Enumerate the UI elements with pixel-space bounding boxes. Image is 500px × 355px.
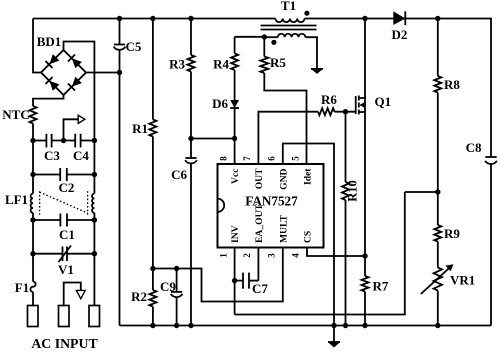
BD1 diode top-left [45, 54, 59, 68]
fuse F1 [32, 254, 34, 282]
chassis arrow (X-cap midpoint) [64, 119, 79, 140]
node row left [30, 138, 35, 143]
svg-text:R4: R4 [213, 57, 229, 72]
svg-text:T1: T1 [281, 0, 296, 13]
svg-text:C9: C9 [160, 279, 176, 294]
node row right [92, 138, 97, 143]
wire V1 row [32, 220, 34, 254]
capacitor C9 [176, 269, 178, 292]
wire Vcc junction [191, 138, 235, 140]
node C5 bottom junction [117, 70, 122, 75]
capacitor C1 [59, 214, 61, 227]
resistor R6 [318, 108, 335, 115]
svg-text:R9: R9 [444, 226, 460, 241]
svg-text:GND: GND [278, 168, 289, 189]
resistor R9 [437, 192, 439, 225]
svg-text:NTC: NTC [2, 107, 29, 122]
node feedback tap [435, 189, 440, 194]
wire X-cap row [33, 140, 46, 142]
svg-text:F1: F1 [15, 280, 29, 295]
wire pin4 CS to R7 node [307, 248, 365, 257]
thermistor NTC [30, 106, 37, 123]
node source/R7/CS [362, 253, 367, 258]
svg-text:R5: R5 [270, 55, 286, 70]
node R7 bottom [362, 323, 367, 328]
wire tap to INV run [405, 191, 438, 193]
node R10 bottom [343, 323, 348, 328]
node VR1 bottom [435, 323, 440, 328]
node aux winding / R4 / R5 [262, 34, 267, 39]
wire bottom rail [120, 325, 492, 327]
svg-text:VR1: VR1 [450, 273, 475, 288]
wire right AC column to terminal [93, 254, 95, 306]
svg-text:3: 3 [267, 253, 277, 258]
varistor V1 [62, 247, 64, 262]
BD1 diode top-right [68, 54, 82, 68]
svg-text:C1: C1 [59, 227, 75, 242]
svg-text:Q1: Q1 [375, 94, 392, 109]
resistor R3 [190, 19, 192, 56]
svg-text:C3: C3 [44, 148, 60, 163]
transformer T1 primary [264, 18, 275, 20]
T1 polarity dot primary [304, 11, 309, 16]
svg-text:MULT: MULT [278, 214, 289, 243]
capacitor C4 [74, 134, 76, 148]
node C6 bottom [188, 323, 193, 328]
node C9 top [174, 266, 179, 271]
wire R4 top jog to aux node [235, 36, 265, 38]
node top rail / Q1 drain [362, 16, 367, 21]
resistor R8 [437, 19, 439, 77]
line filter LF1 right winding [93, 175, 95, 194]
svg-text:OUT: OUT [254, 168, 265, 189]
capacitor C3 [45, 134, 47, 148]
node gate / R10 [343, 109, 348, 114]
svg-text:2: 2 [242, 253, 252, 258]
capacitor C5 [119, 19, 121, 45]
node top rail / R3 [188, 16, 193, 21]
Q1 drain lead [359, 19, 365, 99]
wire pin7 OUT to R6 [258, 112, 318, 164]
svg-text:5: 5 [291, 156, 301, 161]
svg-text:C5: C5 [126, 39, 142, 54]
svg-text:C7: C7 [252, 281, 268, 296]
wire pin6 GND to bottom rail [283, 144, 334, 326]
node V1 left [30, 251, 35, 256]
diode D2 [393, 11, 405, 25]
svg-text:C4: C4 [73, 148, 89, 163]
svg-text:R2: R2 [131, 289, 147, 304]
wire C5 column down to bottom rail [119, 73, 121, 326]
node C1 left [30, 217, 35, 222]
svg-text:AC INPUT: AC INPUT [31, 336, 97, 350]
wire INV feedback run [235, 192, 405, 315]
wire C1 row [33, 219, 60, 221]
resistor R1 [152, 19, 154, 120]
node C2 left [30, 172, 35, 177]
ground (control) [333, 326, 335, 342]
node row mid [61, 138, 66, 143]
node V1 right [92, 251, 97, 256]
line filter LF1 left winding [32, 175, 34, 194]
transistor Q1 gate bar [355, 96, 357, 114]
svg-text:R7: R7 [373, 279, 389, 294]
svg-text:EA_OUT: EA_OUT [254, 203, 265, 243]
variable resistor VR1 [434, 268, 442, 291]
node C2 right [92, 172, 97, 177]
wire bridge bottom to NTC [33, 95, 64, 106]
svg-text:R8: R8 [444, 77, 460, 92]
svg-text:Idet: Idet [303, 168, 314, 185]
svg-text:D2: D2 [392, 27, 408, 42]
BD1 diode bottom-left [45, 77, 59, 91]
node C1 right [92, 217, 97, 222]
AC input terminal left [28, 306, 39, 327]
resistor R10 [345, 112, 347, 182]
wire top rail [33, 18, 264, 20]
svg-text:Vcc: Vcc [230, 168, 241, 184]
svg-text:R6: R6 [321, 92, 337, 107]
node R1/R2/C9 [150, 266, 155, 271]
ground (aux winding) [311, 68, 323, 70]
node R2 bottom [150, 323, 155, 328]
resistor R4 [234, 37, 236, 54]
transformer T1 secondary [278, 34, 306, 37]
svg-text:6: 6 [267, 156, 277, 161]
svg-text:C6: C6 [171, 167, 187, 182]
BD1 diode bottom-right [68, 76, 82, 90]
diode D6 [230, 100, 239, 108]
node top rail / R1 [150, 16, 155, 21]
wire bridge AC top to input column [64, 42, 95, 141]
svg-text:R1: R1 [132, 121, 148, 136]
T1 core lines [261, 25, 317, 27]
capacitor C7 [235, 280, 243, 282]
capacitor C8 [485, 156, 496, 158]
wire C2 row [33, 141, 60, 175]
svg-text:V1: V1 [58, 262, 74, 277]
node top rail / R8 [435, 16, 440, 21]
svg-text:R3: R3 [169, 57, 185, 72]
svg-text:INV: INV [230, 225, 241, 243]
node GND column bottom [331, 323, 336, 328]
wire Vcc pin8 [234, 139, 236, 165]
op-amp U1 FAN7527 body [218, 164, 324, 248]
wire R2top to C9 and MULT [153, 248, 283, 302]
svg-text:8: 8 [218, 156, 228, 161]
Q1 body arrow [359, 102, 364, 108]
svg-text:C8: C8 [466, 140, 482, 155]
svg-text:D6: D6 [212, 96, 228, 111]
svg-text:4: 4 [291, 253, 301, 258]
svg-text:1: 1 [218, 253, 228, 258]
wire pin1 INV down [234, 248, 236, 315]
wire right rail lower [490, 164, 492, 325]
AC input terminal middle [59, 306, 70, 327]
capacitor C6 [190, 139, 192, 159]
LF1 coupling dashes [39, 191, 41, 215]
bridge rectifier BD1 diamond [41, 50, 86, 95]
node C7 left [232, 278, 237, 283]
Q1 source lead [359, 98, 365, 256]
capacitor C2 [59, 168, 61, 181]
VR1 arrow [421, 266, 451, 294]
svg-text:7: 7 [242, 156, 252, 161]
node top rail / C5 [117, 16, 122, 21]
Q1 channel segments [358, 96, 360, 101]
svg-text:BD1: BD1 [37, 34, 62, 49]
wire pin2 EA_OUT [257, 248, 259, 281]
node Vcc wire right [232, 136, 237, 141]
wire left DC+ riser [33, 19, 41, 73]
node C9 bottom [174, 323, 179, 328]
resistor R2 [152, 269, 154, 291]
svg-text:CS: CS [303, 231, 314, 243]
resistor R5 [263, 37, 265, 57]
AC input terminal right [89, 306, 100, 327]
resistor R7 [364, 256, 366, 276]
chassis arrow (middle terminal earth) [64, 283, 81, 306]
svg-text:LF1: LF1 [5, 192, 28, 207]
wire bridge right vertex to C5 column [86, 72, 120, 74]
svg-text:C2: C2 [59, 180, 75, 195]
svg-text:R10: R10 [346, 180, 360, 202]
T1 polarity dot secondary [271, 40, 276, 45]
node Vcc wire left [188, 136, 193, 141]
